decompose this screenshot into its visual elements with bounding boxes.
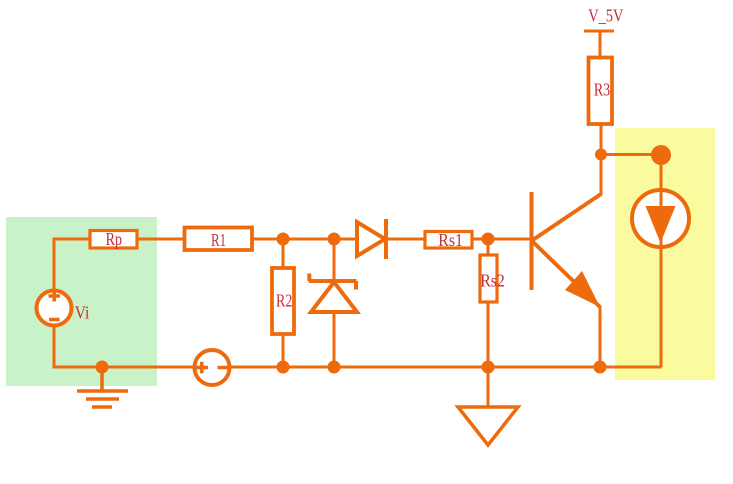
wire: Vi minus down and right to offset source [54,327,194,367]
wire: R1 right through node A and node B to diode anode [252,238,357,241]
signal ground (triangle) [458,407,518,445]
wire: Rp right to R1 left [137,238,184,241]
input source region (green) [6,217,157,386]
svg-text:Vi: Vi [75,302,90,322]
wire: node D to output node [601,153,655,156]
wire: node A to R2 top [282,239,285,268]
node A junction [277,233,290,246]
wire: node C to Rs2 top [487,239,490,255]
output node (big dot) [651,145,671,165]
offset voltage source in rail [195,350,230,385]
output load region (yellow) [615,128,715,380]
resistor Rp [90,231,137,249]
transistor Q1 [532,192,602,307]
diode D1 [357,219,386,259]
wire: Rs2 bottom to ground rail [487,302,490,367]
resistor R1 [185,228,253,251]
voltage source Vi [37,291,72,326]
node D junction [595,149,607,161]
node C junction [482,233,495,246]
rail junction at ground tap [96,361,109,374]
rail junction at Rs2 / signal ground [482,361,495,374]
wire: Vi plus to Rp left [54,239,90,290]
chassis ground under Vi [77,367,128,407]
wire: R2 bottom to rail [282,334,285,367]
wire: Rs1 right through node C to transistor base [472,238,530,241]
svg-text:Rp: Rp [106,231,122,250]
resistor R2 [272,268,294,334]
wire: rail to signal-ground symbol [487,367,490,406]
resistor Rs2 [480,255,497,302]
svg-text:Rs2: Rs2 [480,271,505,291]
rail junction at emitter [594,361,607,374]
wire: emitter corner down to rail [599,307,602,367]
node B junction [328,233,341,246]
zener diode D2 [309,274,357,313]
wire: power bar to R3 top [599,31,602,57]
wire: node D down to collector corner [600,155,603,195]
wire: diode cathode to Rs1 left [386,238,425,241]
wire: offset source to rail end at output branch [230,366,660,369]
power symbol V_5V [584,30,614,33]
wire: node B to zener cathode [333,239,336,281]
rail junction at zener [328,361,341,374]
resistor R3 [589,58,613,125]
wire: zener anode to rail [333,311,336,367]
svg-text:R2: R2 [276,292,292,311]
svg-text:Rs1: Rs1 [438,230,463,250]
resistor Rs1 [425,232,472,249]
svg-text:R1: R1 [211,231,226,251]
wire: R3 bottom to node D [600,124,603,154]
svg-text:V_5V: V_5V [588,5,623,26]
svg-text:R3: R3 [594,81,610,100]
current source (output load) [632,165,689,367]
rail junction at R2 [277,361,290,374]
